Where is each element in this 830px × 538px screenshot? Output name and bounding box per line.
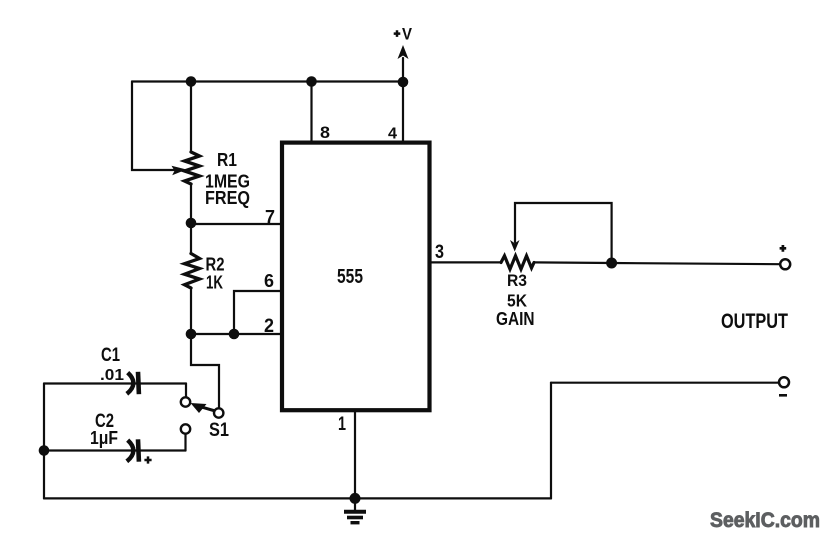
junction node top-left: [186, 76, 197, 87]
junction node pin 4 / +V: [398, 77, 409, 88]
+V arrowhead: [398, 45, 409, 59]
svg-text:R2: R2: [206, 255, 225, 275]
wire pin 2: [191, 333, 282, 335]
svg-text:4: 4: [388, 126, 397, 143]
label output plus: [780, 245, 787, 252]
wire pin 1: [354, 410, 356, 498]
op-amp/IC 555 box U1: [282, 143, 430, 411]
wire C2 horizontal: [44, 449, 186, 451]
switch S1 wiper contact: [214, 408, 223, 417]
wire R3 right to plus output: [534, 262, 780, 264]
svg-text:C1: C1: [101, 345, 120, 366]
junction node pin 8: [306, 76, 317, 87]
switch S1 contact bottom: [181, 424, 190, 433]
svg-text:6: 6: [264, 271, 274, 291]
svg-text:SeekIC.com: SeekIC.com: [710, 509, 820, 532]
wire S1 feed from pin2 node: [191, 334, 219, 408]
wire right vertical to minus output: [550, 383, 552, 499]
label C2 plus: [144, 456, 151, 463]
wire R2 bottom stub: [190, 288, 192, 334]
minus sign under terminal: [779, 394, 787, 397]
resistor R2: [185, 254, 200, 289]
svg-text:3: 3: [435, 242, 444, 263]
label +V: [394, 30, 401, 37]
svg-text:8: 8: [320, 123, 330, 142]
svg-text:R1: R1: [217, 150, 237, 170]
wire pin 7: [191, 223, 282, 225]
output terminal minus: [779, 377, 789, 387]
potentiometer R3: [501, 256, 534, 269]
svg-text:GAIN: GAIN: [496, 308, 535, 329]
R3 wiper arrowhead: [510, 240, 520, 252]
wire R2 top stub: [190, 224, 192, 254]
svg-text:OUTPUT: OUTPUT: [721, 310, 788, 333]
S1 wiper line: [203, 407, 218, 411]
output terminal plus: [780, 259, 790, 269]
wire C2 to S1 bottom contact: [184, 434, 186, 451]
svg-text:1μF: 1μF: [90, 428, 118, 448]
wire bottom ground rail: [44, 497, 551, 499]
svg-text:FREQ: FREQ: [205, 188, 250, 208]
junction node pin6/pin2: [229, 329, 240, 340]
switch S1 contact top: [181, 397, 190, 406]
wire pin 4 / +V stem: [402, 58, 404, 142]
wire pin 8: [310, 82, 312, 143]
wire R1 bottom stub: [190, 184, 192, 224]
wire minus output: [551, 382, 780, 384]
svg-text:.01: .01: [100, 367, 124, 384]
wire C1 to S1 top contact: [185, 384, 187, 398]
capacitor C2 symbol: [127, 439, 139, 461]
wire R1 feedback loop left: [132, 82, 174, 171]
svg-text:2: 2: [264, 316, 274, 337]
svg-text:V: V: [402, 26, 412, 44]
junction node R1/R2/pin7: [186, 218, 197, 229]
wire R3 wiper loop: [515, 203, 612, 263]
R1 wiper arrowhead: [172, 166, 187, 176]
wire C1 horizontal: [44, 382, 186, 384]
junction node C2 left: [39, 445, 50, 456]
svg-text:R3: R3: [507, 271, 527, 290]
svg-text:7: 7: [265, 207, 275, 227]
wire R1 top stub: [190, 82, 192, 153]
svg-text:1: 1: [338, 414, 346, 435]
svg-text:S1: S1: [209, 420, 229, 441]
wire pin 3 / R3 left: [431, 261, 502, 263]
S1 wiper arrow: [191, 403, 207, 413]
junction node R2/pin2: [186, 329, 197, 340]
svg-text:555: 555: [337, 266, 363, 288]
wire left vertical C1-C2-bottom: [43, 384, 45, 499]
ground: [344, 498, 366, 523]
wire pin 6: [234, 291, 282, 334]
junction node R3 loop right: [606, 258, 617, 269]
wire top supply rail: [132, 80, 403, 82]
resistor R1: [185, 152, 200, 184]
svg-text:1K: 1K: [206, 273, 223, 293]
junction node ground: [350, 493, 361, 504]
capacitor C1 symbol: [127, 372, 139, 394]
